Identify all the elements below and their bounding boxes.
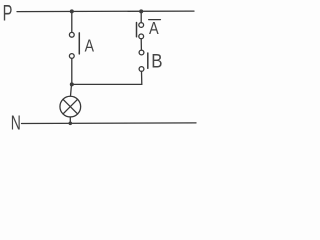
svg-text:B: B	[151, 50, 162, 71]
svg-text:A: A	[149, 20, 159, 38]
svg-text:N: N	[11, 111, 21, 134]
svg-text:P: P	[3, 2, 13, 27]
svg-text:A: A	[85, 36, 95, 56]
